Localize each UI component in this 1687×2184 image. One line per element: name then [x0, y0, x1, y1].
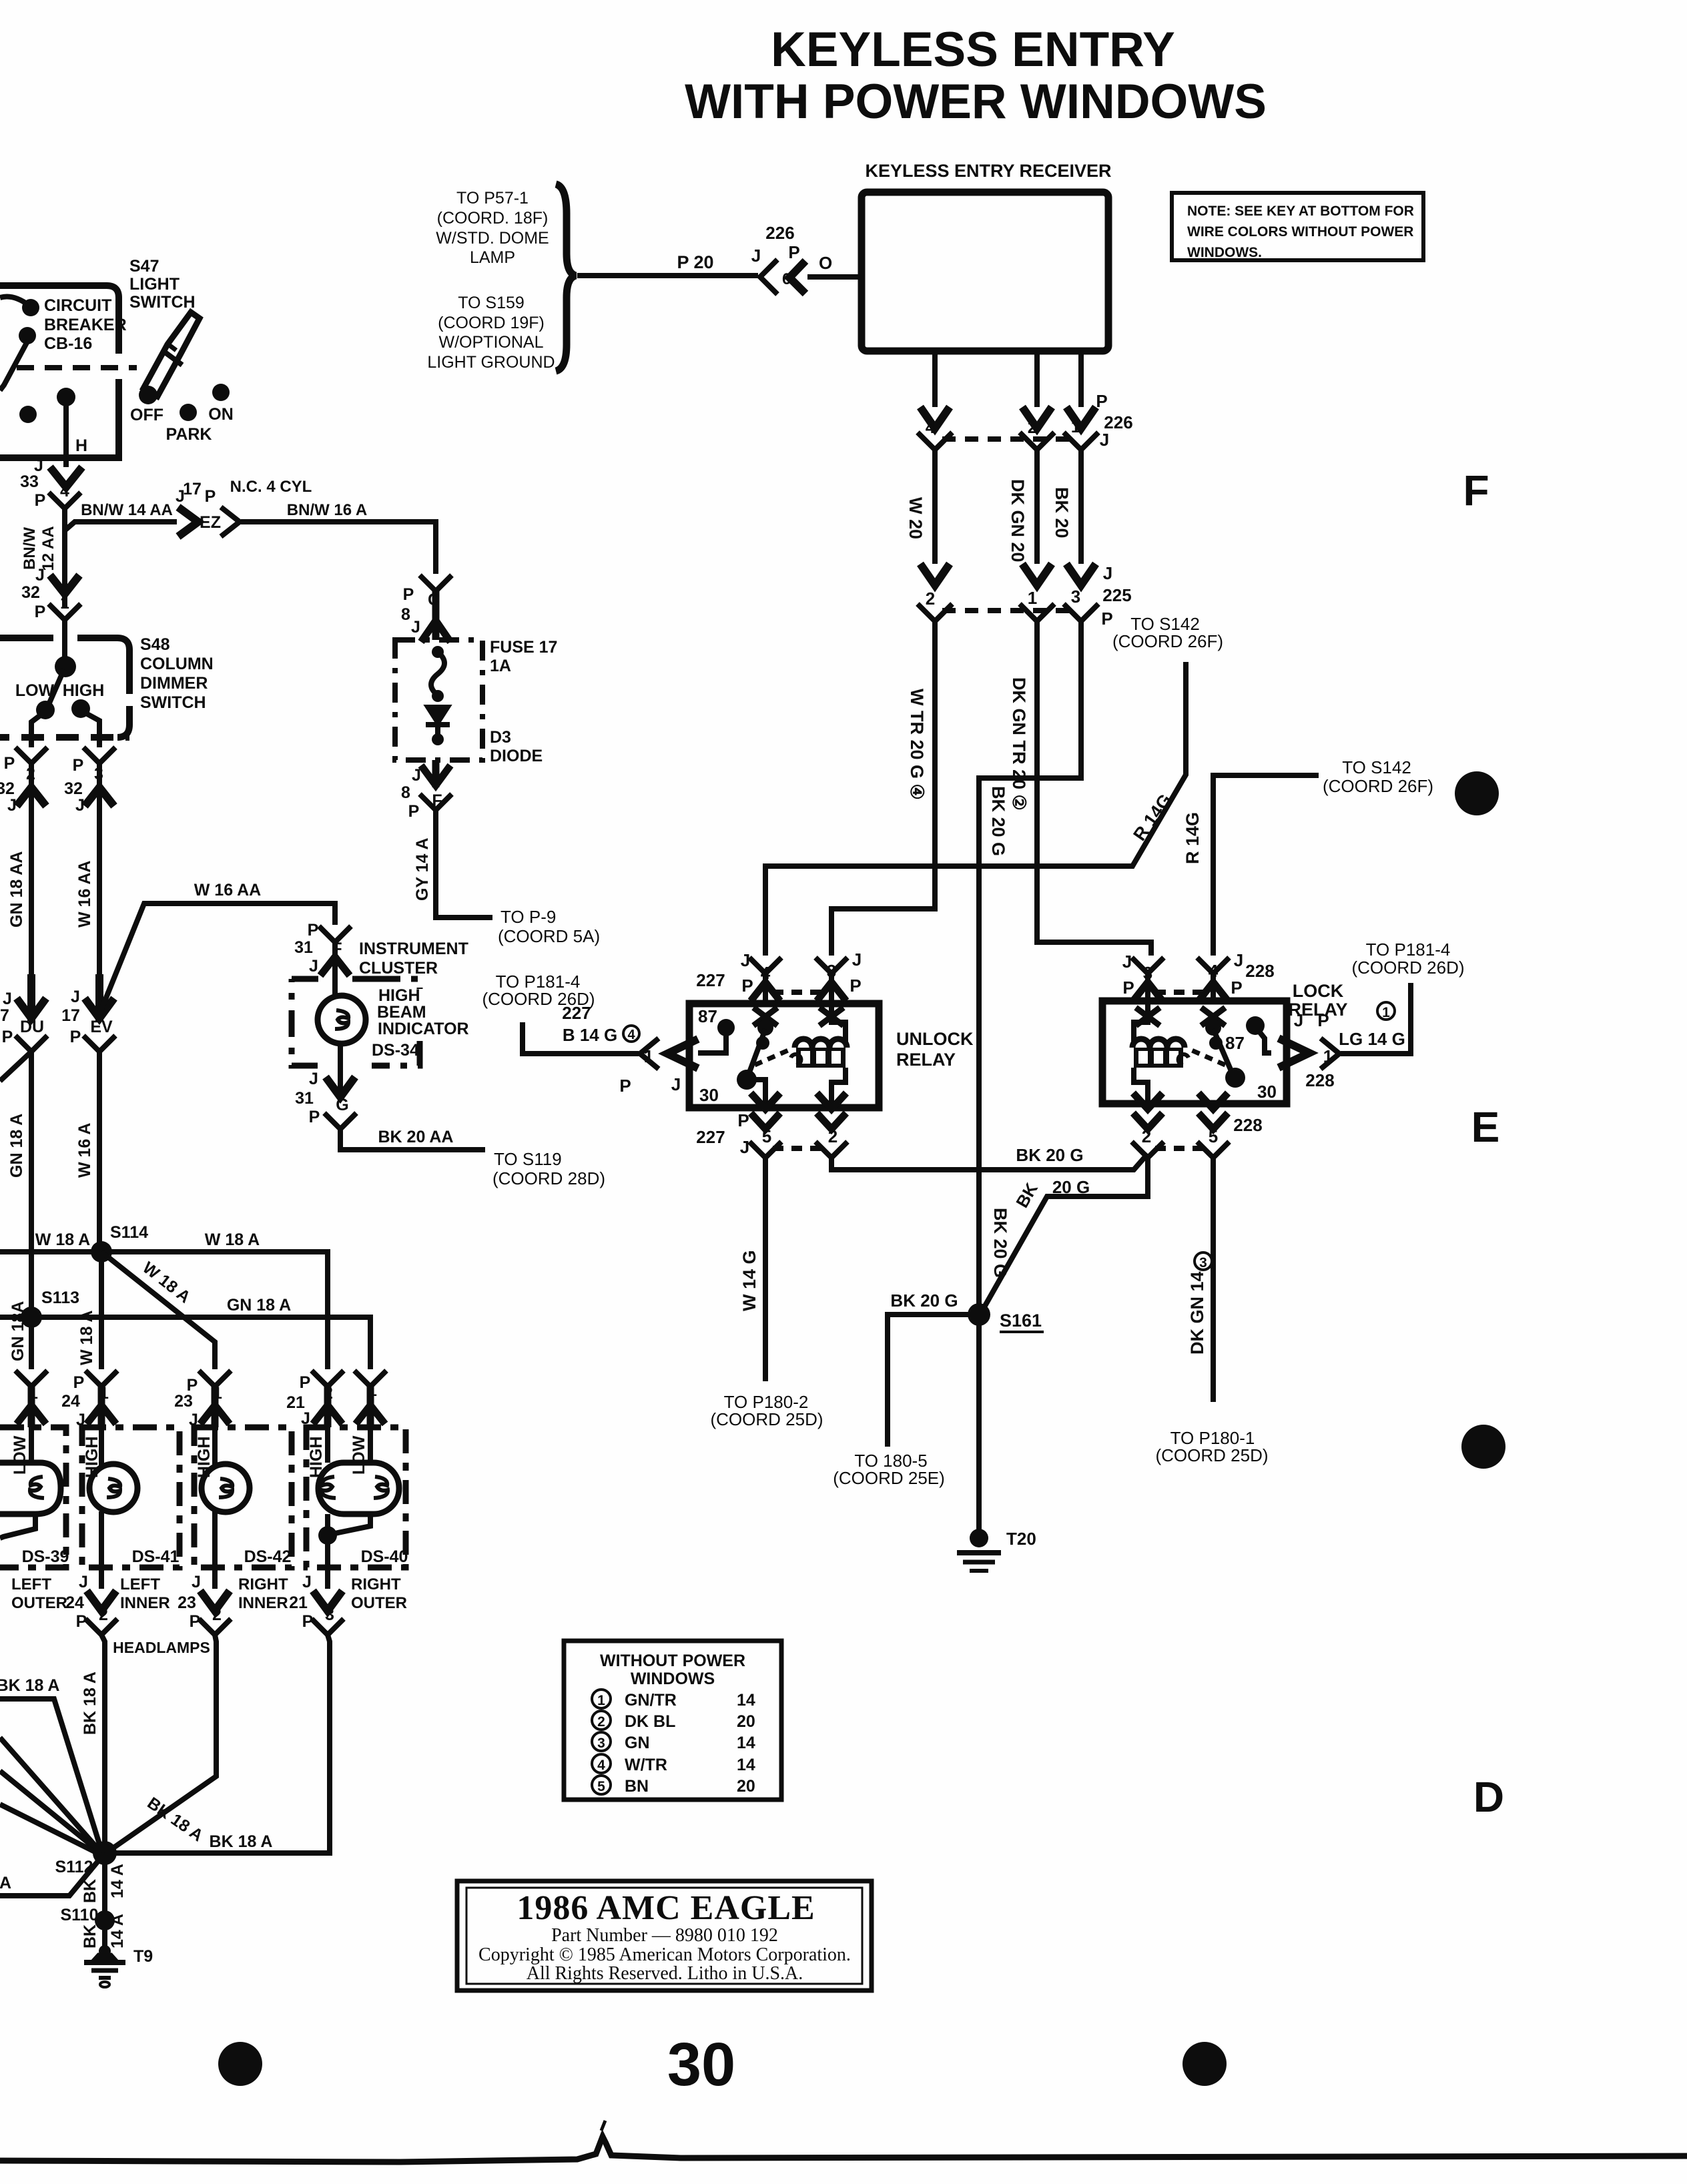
junction S112 dot [93, 1841, 117, 1865]
wire W 20 [932, 450, 938, 564]
arrow down lock pin2 exit [1133, 1093, 1162, 1129]
wire DS-41 pin1 to lamp [99, 1427, 104, 1589]
svg-text:DK GN 14: DK GN 14 [1187, 1271, 1207, 1355]
registration dot right upper [1455, 771, 1499, 815]
arrow up GN col [17, 787, 46, 806]
labels J 7 P DU [0, 990, 44, 1046]
svg-text:2: 2 [828, 1126, 837, 1146]
unlock relay coil [791, 1039, 847, 1068]
arrow down row 225 col B [1022, 564, 1052, 585]
svg-text:2: 2 [926, 589, 935, 609]
arrow up DS-39 pin1 [17, 1387, 46, 1427]
wire BK 20 AA [340, 1129, 485, 1150]
arrow up unlock pin4 P [751, 982, 780, 1001]
callout TO S142 second [1323, 757, 1433, 796]
svg-text:LOW: LOW [11, 1435, 29, 1475]
svg-text:P: P [741, 976, 753, 996]
svg-text:DS-41: DS-41 [132, 1547, 180, 1566]
X mark unlock pin3 box entry [819, 1008, 843, 1026]
connector DS-40 P3 [312, 1619, 344, 1635]
svg-text:DK GN TR 20 ②: DK GN TR 20 ② [1009, 677, 1029, 811]
lock relay coil [1132, 1039, 1189, 1068]
wire bulb to G [335, 942, 340, 1094]
svg-text:P: P [737, 1110, 749, 1130]
lock relay blade pivot dot [1205, 1020, 1221, 1036]
connector EZ out chevron [221, 507, 240, 536]
svg-text:LOW: LOW [15, 681, 55, 700]
switch common dot [57, 388, 75, 406]
svg-text:14 A: 14 A [108, 1914, 127, 1948]
S48 HIGH dot [71, 699, 90, 718]
svg-text:S47: S47 [129, 257, 159, 276]
ground T9 [84, 1945, 125, 1987]
svg-text:(COORD 26F): (COORD 26F) [1112, 631, 1223, 651]
wire S161 branch left [888, 1315, 979, 1447]
dashed link unlock top pins [773, 990, 825, 995]
OFF position dot [139, 386, 157, 404]
svg-text:BK 18 A: BK 18 A [210, 1832, 273, 1851]
svg-text:LEFT: LEFT [120, 1575, 160, 1593]
wire S112 branch lower left [0, 1853, 105, 1896]
registration dot bottom right [1183, 2042, 1227, 2086]
svg-text:D: D [1473, 1773, 1504, 1821]
label S47 LIGHT SWITCH [129, 257, 196, 312]
wire GN 18 AA [29, 763, 34, 998]
svg-text:2: 2 [1028, 417, 1037, 437]
svg-text:228: 228 [1245, 961, 1274, 981]
svg-text:12 AA: 12 AA [39, 526, 57, 571]
svg-text:24: 24 [65, 1593, 84, 1612]
lamp box DS-42 dashed [194, 1427, 292, 1567]
connector unlock pin5 [749, 1142, 781, 1158]
label S161 [1000, 1311, 1042, 1331]
svg-text:INNER: INNER [238, 1594, 288, 1612]
svg-text:EV: EV [90, 1018, 113, 1036]
wire W 18 A horizontal [0, 1252, 328, 1369]
svg-text:4: 4 [926, 417, 936, 437]
wire B 14 G [523, 1022, 639, 1054]
svg-text:8: 8 [401, 605, 410, 624]
connector row 226 pin 2 [1020, 432, 1054, 450]
svg-text:LAMP: LAMP [470, 248, 515, 267]
svg-text:20: 20 [737, 1777, 755, 1796]
svg-text:3: 3 [1199, 1255, 1207, 1270]
svg-text:BK 18 A: BK 18 A [81, 1672, 99, 1735]
svg-text:30: 30 [1257, 1082, 1277, 1102]
svg-text:DIMMER: DIMMER [140, 674, 208, 693]
circled 3 [1195, 1252, 1212, 1270]
svg-text:5: 5 [1209, 1126, 1218, 1146]
svg-text:Copyright © 1985 American Moto: Copyright © 1985 American Motors Corpora… [478, 1944, 851, 1965]
arrow up lock pin4 P [1199, 982, 1228, 1001]
arrow down DU [17, 974, 46, 1021]
S48 column dimmer switch box [0, 638, 129, 737]
connector P2 S48 [15, 747, 47, 763]
svg-text:7: 7 [0, 1006, 9, 1025]
svg-text:WITHOUT POWER: WITHOUT POWER [600, 1652, 745, 1670]
arrow down P1 [50, 575, 79, 594]
lock relay blade mid dot [1209, 1036, 1223, 1050]
connector lock pin3 J [1132, 958, 1164, 974]
unlock relay blade pivot dot [757, 1020, 773, 1036]
svg-text:8: 8 [401, 783, 410, 802]
high beam indicator bulb DS-34 [318, 996, 366, 1044]
svg-text:LEFT: LEFT [11, 1575, 51, 1593]
connector DU [15, 1036, 47, 1052]
registration dot right middle [1461, 1425, 1505, 1469]
svg-text:4: 4 [597, 1758, 605, 1773]
wire H from switch [63, 397, 69, 467]
callout TO P181-4 left [482, 972, 595, 1009]
labels J numbers bottom [65, 1573, 312, 1612]
svg-text:5: 5 [762, 1126, 771, 1146]
arrow up lock pin3 P [1133, 982, 1162, 1001]
svg-text:P: P [403, 585, 414, 604]
X mark unlock pin4 box entry [753, 1008, 777, 1026]
svg-text:INNER: INNER [120, 1594, 170, 1612]
svg-text:J: J [1103, 563, 1112, 583]
DS-40 lamp leads join [328, 1514, 370, 1589]
connector DS-40 pin1 [354, 1371, 386, 1387]
svg-text:P: P [35, 491, 46, 510]
svg-text:GN 18A: GN 18A [9, 1301, 27, 1361]
svg-text:BK 20 AA: BK 20 AA [378, 1128, 454, 1146]
svg-text:1986 AMC EAGLE: 1986 AMC EAGLE [517, 1889, 815, 1927]
svg-text:14 A: 14 A [108, 1864, 127, 1898]
connector B14G chevron [640, 1038, 659, 1069]
svg-text:1: 1 [60, 594, 69, 613]
wire P 20 to receiver [577, 276, 862, 277]
wire diagonal 3 to S112 [0, 1771, 100, 1852]
svg-text:DIODE: DIODE [490, 747, 543, 765]
circuit breaker CB-16 box [0, 286, 119, 458]
svg-text:HEADLAMPS: HEADLAMPS [113, 1639, 210, 1656]
svg-text:P: P [408, 802, 420, 821]
junction S114 dot [91, 1241, 112, 1262]
svg-text:DS-34: DS-34 [372, 1041, 419, 1060]
svg-text:(COORD. 18F): (COORD. 18F) [437, 209, 549, 228]
callout TO P180-2 [710, 1392, 823, 1429]
wire receiver pin A down [932, 351, 938, 407]
svg-text:CB-16: CB-16 [44, 334, 92, 353]
labels P C 8 J fuse top [401, 585, 440, 637]
svg-text:(COORD 19F): (COORD 19F) [438, 314, 545, 332]
svg-text:J: J [751, 246, 761, 266]
connector DS-39 pin1 [15, 1371, 47, 1387]
svg-text:HIGH: HIGH [63, 681, 105, 700]
svg-text:J: J [79, 1573, 88, 1591]
callout TO S119 [492, 1149, 605, 1188]
svg-text:3: 3 [597, 1736, 605, 1751]
key row 2 DK BL 20 [592, 1711, 755, 1731]
arrow down EV [85, 974, 114, 1021]
unlock 87 wire to left [698, 1032, 726, 1053]
wire S161 to ground [976, 1315, 982, 1531]
labels P 2 32 J left [0, 754, 35, 815]
lock 87 wire to right [1259, 1032, 1271, 1053]
svg-text:J: J [309, 1070, 318, 1088]
svg-text:2: 2 [212, 1605, 222, 1624]
svg-text:3: 3 [1071, 587, 1080, 607]
wire DS-42 to S112 [109, 1635, 216, 1851]
labels DS names [22, 1547, 408, 1566]
labels J 17 P EV [61, 988, 113, 1046]
svg-text:LOW: LOW [350, 1435, 368, 1475]
unlock relay blade [747, 1029, 765, 1078]
wire DS-40 pin2 to lamp [325, 1427, 330, 1463]
connector lock pin4 J [1197, 958, 1229, 974]
labels P 3 32 J right [64, 756, 103, 815]
svg-text:J: J [1234, 950, 1243, 970]
wire lock pin2 drop to S161 [982, 1154, 1148, 1311]
connector 226 J/P at P20 wire [760, 260, 777, 294]
arrow down DS-42 out [200, 1591, 230, 1611]
connector DS-40 pin2 [312, 1371, 344, 1387]
key row 1 GN/TR 14 [592, 1690, 755, 1710]
wire BK 20 G col [979, 621, 1081, 1312]
labels OFF PARK ON [130, 405, 234, 444]
AMC Eagle text [478, 1889, 851, 1984]
lock coil wire to pin2 [1134, 1068, 1148, 1108]
svg-text:225: 225 [1102, 585, 1131, 605]
callout TO S142 first [1112, 614, 1223, 651]
svg-text:1A: 1A [490, 657, 511, 675]
svg-text:(COORD 28D): (COORD 28D) [492, 1168, 605, 1188]
labels J 33 P 4 [20, 456, 69, 510]
svg-text:LIGHT GROUND: LIGHT GROUND [427, 353, 555, 372]
label LOCK RELAY [1288, 981, 1347, 1020]
arrow up DS-40 pin1 [356, 1387, 385, 1427]
connector DS-41 P2 [85, 1619, 117, 1635]
svg-text:S113: S113 [41, 1289, 79, 1307]
svg-text:32: 32 [64, 779, 83, 798]
svg-text:P: P [1101, 609, 1112, 629]
svg-text:G: G [336, 1096, 348, 1114]
svg-text:P: P [76, 1612, 87, 1631]
dashed link row 225 [942, 608, 1074, 613]
X mark lock pin4 box entry [1201, 1008, 1225, 1026]
svg-text:SWITCH: SWITCH [140, 693, 206, 712]
bulb filament [335, 1010, 348, 1029]
svg-text:TO P-9: TO P-9 [500, 907, 556, 927]
connector lock pin2 [1132, 1142, 1164, 1158]
svg-text:(COORD 25D): (COORD 25D) [1155, 1445, 1268, 1465]
svg-text:J: J [412, 766, 421, 785]
svg-text:INSTRUMENT: INSTRUMENT [359, 940, 468, 958]
lock coil wire from pin3 [1134, 1004, 1148, 1042]
svg-text:LOCK: LOCK [1293, 981, 1344, 1001]
svg-text:2: 2 [597, 1714, 605, 1730]
connector fuse top [420, 575, 452, 591]
wire diagonal 4 to S112 [0, 1804, 101, 1855]
labels J 17 P EZ row [176, 480, 216, 506]
svg-text:P: P [73, 1373, 85, 1392]
svg-text:J: J [75, 796, 85, 815]
wire W below S114 [99, 1252, 104, 1369]
svg-text:OUTER: OUTER [11, 1594, 67, 1612]
lock relay armature dashed [1187, 1048, 1225, 1065]
unlock relay armature dashed [755, 1048, 793, 1065]
dashed actuator line [17, 365, 137, 370]
wire R 14G to lock relay [1213, 775, 1319, 956]
svg-text:T20: T20 [1006, 1529, 1036, 1549]
svg-text:DK BL: DK BL [625, 1712, 675, 1731]
svg-text:(COORD 25E): (COORD 25E) [833, 1468, 945, 1488]
svg-text:S110: S110 [60, 1906, 98, 1924]
svg-text:14: 14 [737, 1734, 755, 1752]
connector cluster F [319, 926, 351, 942]
wire BK 20 [1078, 450, 1084, 564]
arrow up DS-40 pin2 [313, 1387, 342, 1427]
junction S113 dot [21, 1307, 42, 1328]
AMC Eagle title box inner [466, 1888, 862, 1984]
arrow down J33 [50, 467, 82, 487]
svg-text:GY 14 A: GY 14 A [413, 838, 432, 901]
svg-text:(COORD 5A): (COORD 5A) [498, 926, 600, 946]
S48 input wire [62, 620, 67, 661]
svg-text:RIGHT: RIGHT [351, 1575, 401, 1593]
S48 HIGH wire out [85, 713, 99, 747]
svg-text:J: J [1294, 1010, 1303, 1030]
arrow down row 225 col C [1066, 564, 1096, 585]
S48 LOW wire out [31, 714, 42, 747]
bottom page border line [0, 2137, 1687, 2162]
wire W 14 G [763, 1158, 768, 1381]
arrow down pin A [920, 407, 950, 428]
unlock relay blade mid dot [756, 1036, 769, 1050]
connector unlock pin3 J [815, 958, 848, 974]
connector fuse bottom [420, 794, 452, 810]
arrow down unlock pin2 exit [817, 1093, 846, 1129]
label S48 COLUMN DIMMER SWITCH [140, 635, 214, 712]
svg-text:4: 4 [1209, 961, 1219, 981]
svg-text:W 20: W 20 [906, 497, 926, 539]
connector row 225 pin 3 [1064, 604, 1098, 621]
svg-text:J: J [671, 1074, 681, 1094]
svg-text:WINDOWS: WINDOWS [631, 1670, 715, 1688]
svg-text:TO S142: TO S142 [1342, 757, 1411, 777]
labels J 32 P 1 S48 top [21, 566, 69, 621]
svg-text:W/TR: W/TR [625, 1756, 667, 1774]
svg-text:GN 18 A: GN 18 A [7, 1114, 26, 1178]
wire DS-39 pin1 to lamp [29, 1427, 34, 1463]
wire unlock pin2 to lock pin2 BK 20 G [831, 1154, 1148, 1170]
svg-text:BK 20 G: BK 20 G [990, 1208, 1010, 1278]
connector DS-42 pin1 [199, 1371, 231, 1387]
svg-text:P 20: P 20 [677, 252, 713, 272]
circuit breaker contact dot lower [19, 327, 36, 344]
svg-text:1: 1 [597, 1693, 605, 1708]
svg-text:P: P [302, 1612, 314, 1631]
svg-text:J: J [741, 950, 750, 970]
svg-text:TO P57-1: TO P57-1 [456, 189, 529, 208]
wire DS-40 to S112 [112, 1635, 330, 1853]
svg-text:W 16 AA: W 16 AA [75, 861, 94, 928]
labels row 225 [926, 563, 1132, 629]
wire DK GN 14 [1211, 1158, 1216, 1402]
svg-text:(COORD 26F): (COORD 26F) [1323, 776, 1433, 796]
svg-text:R 14G: R 14G [1183, 812, 1203, 864]
connector DS-41 pin1 [85, 1371, 117, 1387]
registration dot bottom left [218, 2042, 262, 2086]
connector lock pin5 [1197, 1142, 1229, 1158]
svg-text:J: J [35, 566, 45, 585]
key row 3 GN 14 [592, 1732, 755, 1752]
lamp DS-39 filament [30, 1477, 44, 1498]
svg-text:E: E [1471, 1103, 1500, 1151]
S48 LOW dot [36, 701, 55, 719]
lock relay blade [1213, 1029, 1233, 1076]
svg-text:DS-39: DS-39 [22, 1547, 69, 1566]
label HIGH BEAM INDICATOR DS-34 [372, 986, 469, 1060]
svg-text:24: 24 [61, 1392, 80, 1411]
ground T20 [957, 1529, 1001, 1571]
lamp DS-41 filament [107, 1479, 120, 1497]
connector P1 S48 [49, 604, 81, 620]
unlock relay U1 box [689, 1004, 879, 1108]
svg-text:NOTE: SEE KEY AT BOTTOM FOR: NOTE: SEE KEY AT BOTTOM FOR [1187, 204, 1414, 219]
lamp DS-40 capsule [318, 1463, 399, 1514]
lamp DS-42 filament [219, 1479, 232, 1497]
svg-text:BN/W 16 A: BN/W 16 A [287, 501, 367, 519]
connector J33 P4 [49, 492, 81, 508]
wire EZ to fuse column [241, 522, 436, 574]
arrow down fuse exit [421, 760, 450, 787]
svg-text:3: 3 [827, 961, 836, 981]
circled 1 [1377, 1002, 1395, 1020]
wire diagonal 2 to S112 [0, 1738, 99, 1850]
svg-text:BK 20 G: BK 20 G [1016, 1145, 1083, 1165]
lamp box DS-41 dashed [82, 1427, 180, 1567]
svg-text:P: P [35, 603, 46, 621]
svg-text:BREAKER: BREAKER [44, 316, 127, 334]
unlock relay blade end dot [737, 1070, 757, 1090]
svg-text:J: J [7, 796, 17, 815]
svg-text:KEYLESS ENTRY RECEIVER: KEYLESS ENTRY RECEIVER [865, 161, 1111, 181]
svg-text:C: C [428, 591, 440, 609]
label INSTRUMENT CLUSTER [359, 940, 468, 978]
svg-text:3: 3 [1143, 963, 1152, 983]
svg-text:LIGHT: LIGHT [129, 275, 180, 294]
circled 4 [623, 1026, 639, 1042]
svg-text:F: F [1463, 466, 1489, 514]
svg-text:Part Number — 8980 010 192: Part Number — 8980 010 192 [551, 1925, 778, 1946]
lamp DS-40 filament high [322, 1477, 336, 1498]
dashed link unlock bottom pins [773, 1146, 825, 1151]
lamp DS-39 capsule [0, 1463, 61, 1514]
diode D3 [426, 706, 450, 745]
connector DS-42 P2 [199, 1619, 231, 1635]
svg-text:J: J [192, 1573, 201, 1591]
svg-text:30: 30 [667, 2031, 735, 2099]
svg-text:P: P [788, 242, 799, 262]
S48 pivot dot [55, 656, 76, 677]
svg-text:J: J [302, 1573, 312, 1591]
wire R 14G diagonal to unlock [765, 662, 1186, 956]
arrow down DS-40 out [313, 1591, 342, 1611]
svg-text:TO P181-4: TO P181-4 [1366, 940, 1451, 960]
note box [1172, 193, 1423, 260]
svg-text:BK 20 G: BK 20 G [988, 786, 1008, 856]
label D3 DIODE [490, 728, 543, 765]
svg-text:All Rights Reserved. Litho in: All Rights Reserved. Litho in U.S.A. [527, 1963, 803, 1984]
lock terminal 87 dot [1246, 1016, 1265, 1035]
svg-text:W 18 A: W 18 A [77, 1311, 96, 1365]
junction S161 dot [968, 1303, 990, 1326]
svg-text:P: P [1231, 978, 1242, 998]
connector EV [83, 1036, 115, 1052]
labels J 8 P F fuse bottom [401, 766, 442, 821]
